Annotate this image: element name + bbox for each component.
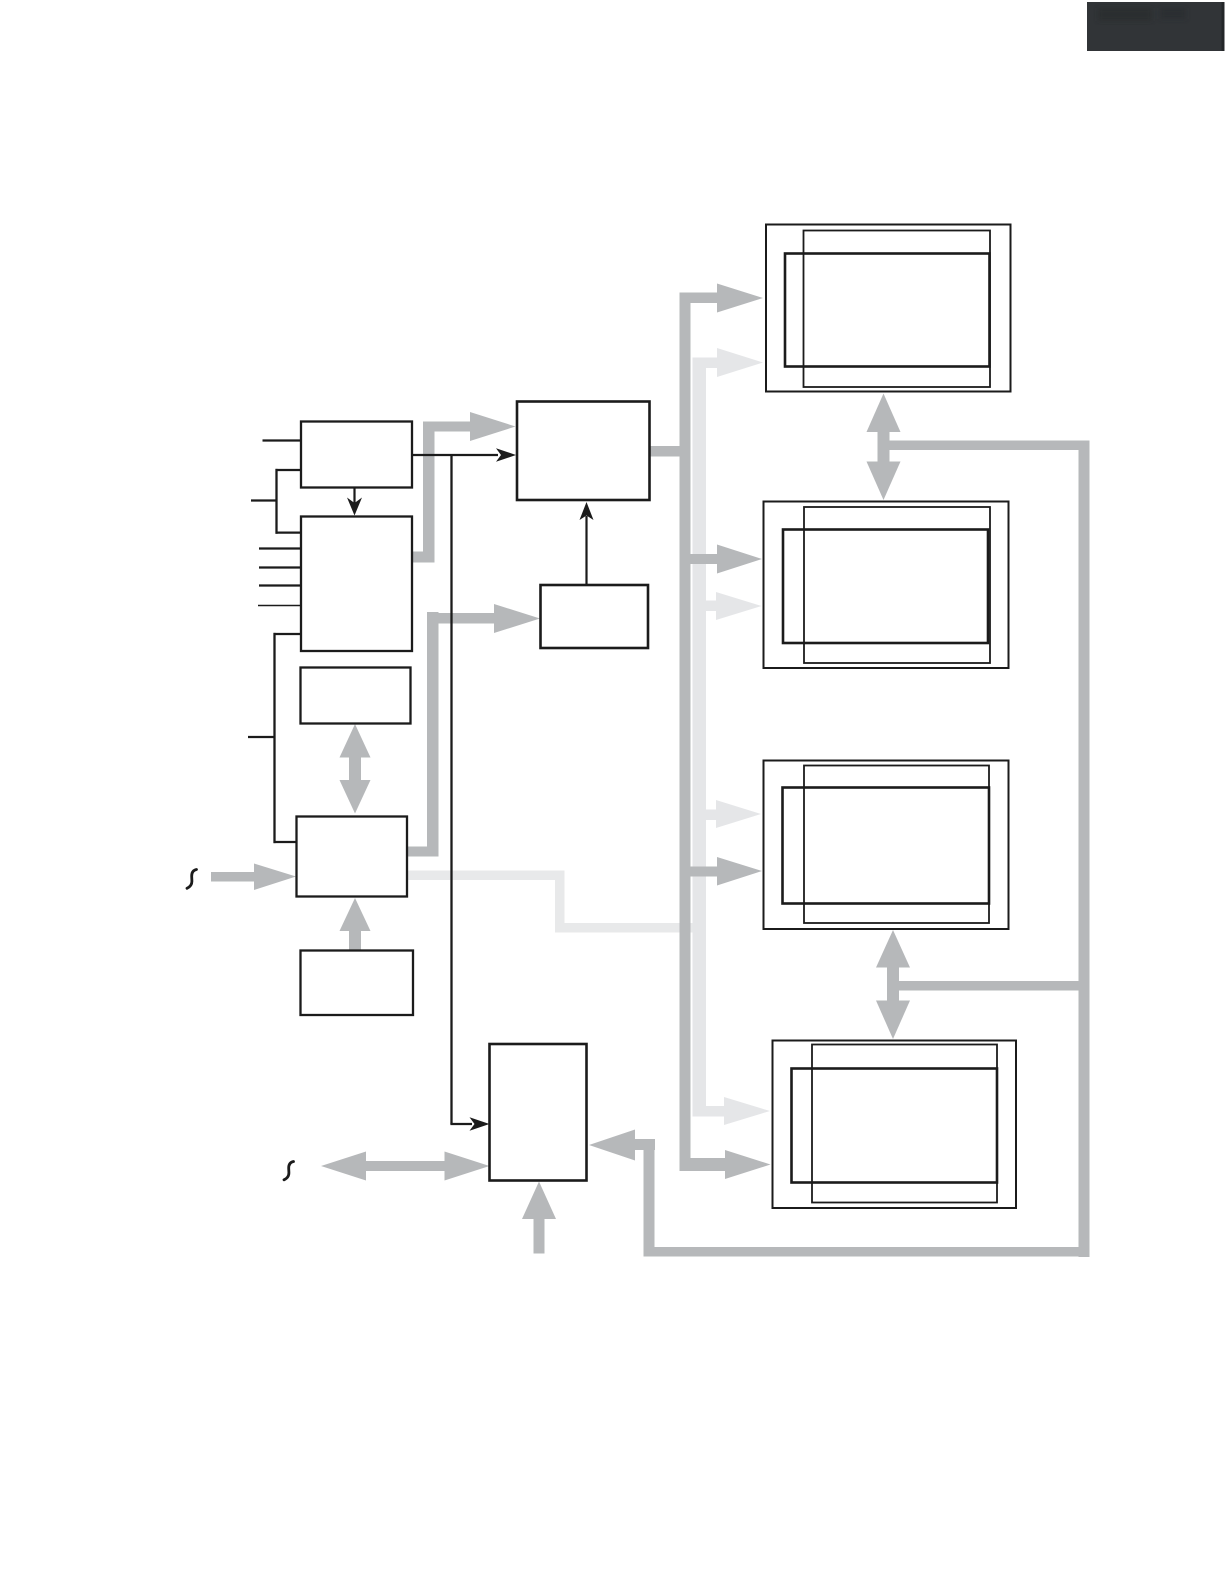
- wire: loop top stub to arrow: [634, 1139, 655, 1150]
- wire: medium bus bottom elbow to monitor 4: [680, 1158, 726, 1171]
- wire: box B to box F gray path: [412, 422, 471, 563]
- box E: [301, 951, 414, 1016]
- arrow medium into monitor 1: [717, 284, 763, 313]
- box D: [297, 817, 408, 897]
- wire: box D to box G gray path: [407, 612, 495, 857]
- wire: box G to box F thin line: [585, 516, 587, 585]
- box B: [301, 517, 412, 652]
- box F: [517, 402, 650, 501]
- arrow medium into monitor 4: [725, 1150, 771, 1179]
- wire: light bus top elbow to monitor 1: [693, 358, 719, 369]
- arrow gray external input into box D: [211, 864, 296, 891]
- squiggle break symbol at box H double arrow: [284, 1162, 294, 1180]
- wire: bracket between box A and box B: [251, 469, 302, 534]
- arrow double gray between box C and box D: [340, 724, 371, 814]
- wire: medium bus vertical: [680, 293, 691, 1171]
- arrow light into monitor 1: [717, 348, 763, 377]
- header dark box: [1087, 2, 1225, 51]
- box A: [301, 422, 412, 488]
- arrow black into box H: [470, 1117, 490, 1131]
- monitor 1: [766, 225, 1011, 392]
- arrow gray into box F: [470, 412, 516, 441]
- arrow double gray between monitor 1 and monitor 2: [867, 394, 901, 501]
- wire: box A right to box F thin line: [412, 454, 498, 456]
- arrow light into monitor 4: [724, 1097, 770, 1125]
- wire: medium bus top elbow to monitor 1: [680, 293, 718, 304]
- wire: stub 4 left of box B (thin): [258, 605, 302, 607]
- wire: medium branch to monitor 2: [691, 554, 719, 564]
- wire: link monitor1/2 arrow to right bus: [883, 441, 1089, 451]
- wire: bottom loop horizontal: [644, 1247, 1090, 1257]
- wire: link monitor3/4 arrow to right bus: [893, 981, 1090, 991]
- wire: loop left vertical up: [644, 1139, 655, 1257]
- arrow black up into box F: [580, 502, 594, 520]
- arrow gray into box G: [494, 604, 540, 633]
- arrow light into monitor 2: [716, 592, 762, 620]
- wire: box F output stub to medium bus: [650, 446, 691, 457]
- arrow gray box E to box D: [340, 898, 371, 952]
- squiggle break symbol at box D input: [187, 870, 197, 889]
- wire: stub 2 left of box B: [259, 566, 302, 568]
- wire: stub 1 left of box B: [259, 547, 302, 549]
- arrow medium into monitor 3: [717, 857, 762, 886]
- arrow gray left into box H: [589, 1130, 635, 1161]
- wire: light branch to monitor 3: [705, 810, 718, 821]
- wire: bracket between box B and box D: [248, 633, 302, 843]
- wire: bypass from box D to light bus: [408, 871, 706, 933]
- wire: medium branch to monitor 3: [691, 867, 721, 877]
- arrow double gray external at box H left: [321, 1152, 490, 1181]
- box H: [490, 1044, 587, 1181]
- wire: light branch to monitor 2: [705, 601, 717, 612]
- box C: [301, 668, 411, 724]
- box G: [541, 585, 649, 648]
- wire: light gray bus vertical: [693, 358, 707, 1117]
- arrow light into monitor 3: [716, 800, 761, 828]
- monitor 2: [764, 502, 1009, 669]
- arrow double gray between monitor 3 and monitor 4: [876, 930, 910, 1039]
- wire: stub left of box A: [263, 439, 303, 441]
- arrow black into box F: [496, 448, 516, 462]
- arrow medium into monitor 2: [717, 545, 762, 574]
- arrow gray up into box H bottom: [522, 1182, 556, 1254]
- arrow black box A to box B: [347, 488, 362, 516]
- wire: right bus vertical: [1079, 441, 1090, 1258]
- monitor 3: [764, 761, 1009, 930]
- wire: stub 3 left of box B: [259, 584, 302, 586]
- wire: light bus bottom elbow to monitor 4: [693, 1106, 725, 1117]
- wire: thin branch down to box H: [450, 455, 472, 1124]
- monitor 4: [773, 1041, 1017, 1209]
